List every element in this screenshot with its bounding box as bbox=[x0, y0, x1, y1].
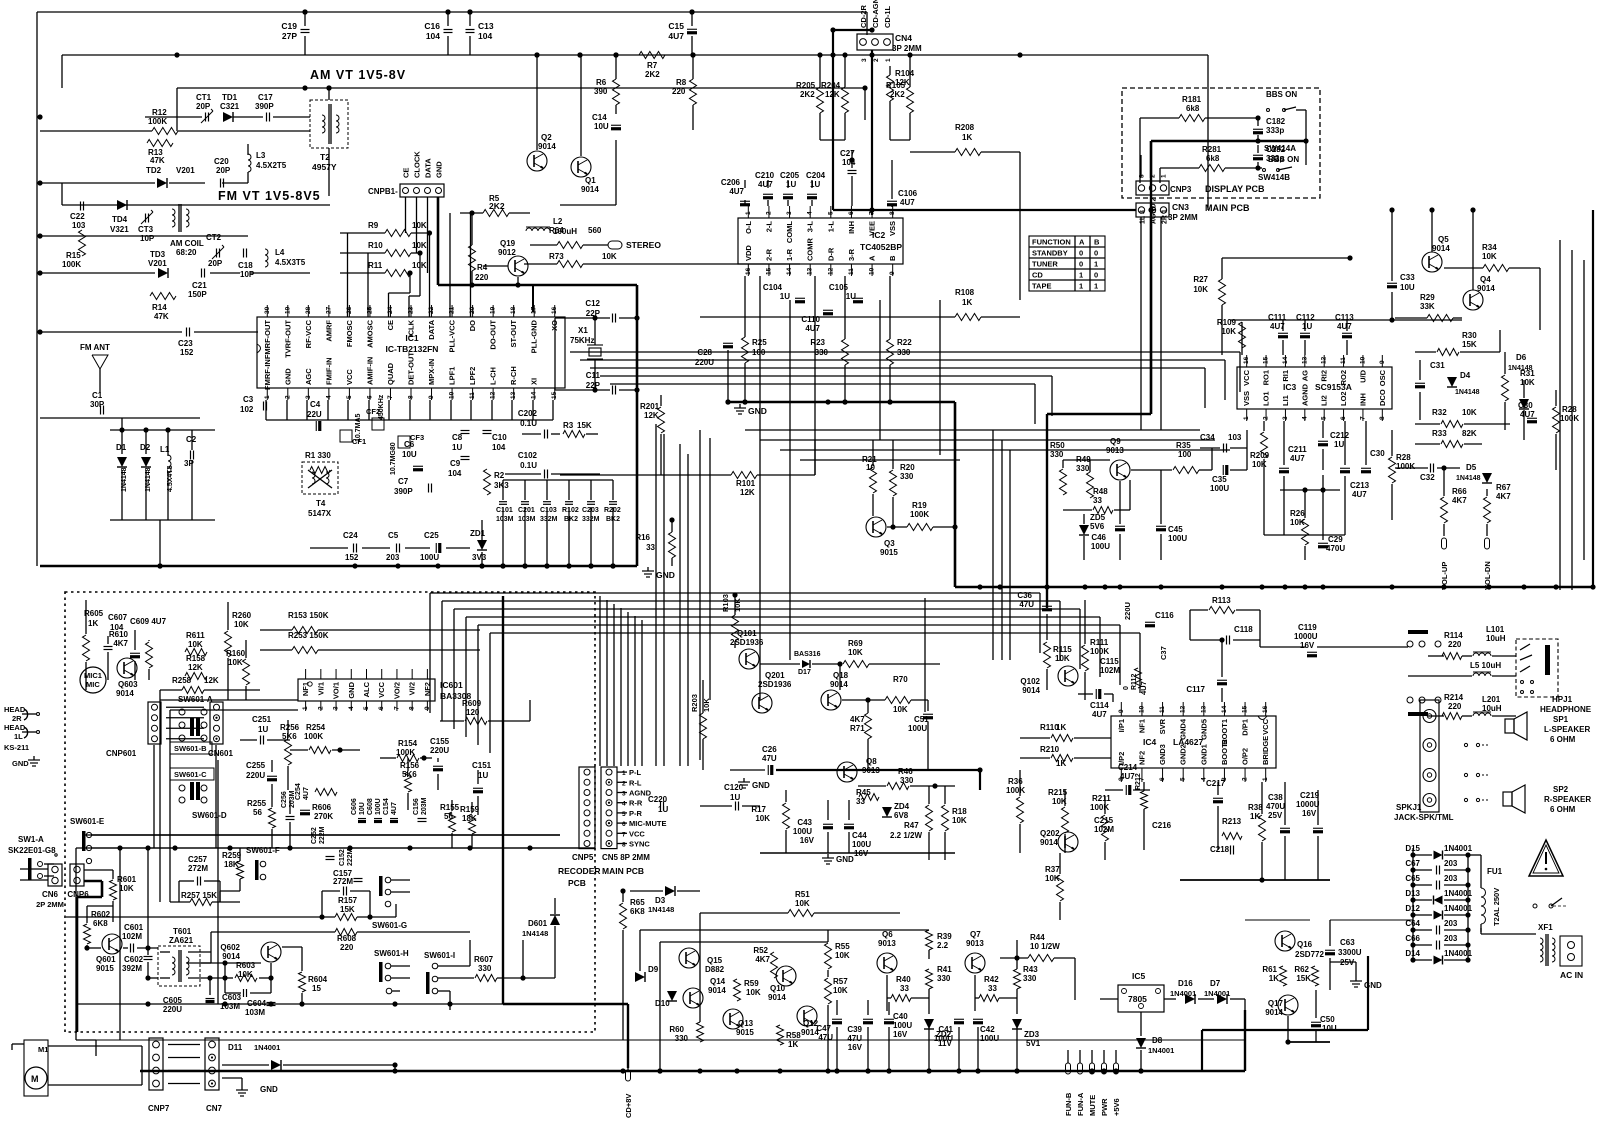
svg-text:R210: R210 bbox=[1040, 745, 1060, 754]
svg-text:10K: 10K bbox=[893, 705, 908, 714]
svg-text:10K: 10K bbox=[1045, 874, 1060, 883]
svg-text:C36: C36 bbox=[1017, 591, 1032, 600]
svg-text:3: 3 bbox=[333, 706, 340, 710]
svg-text:IC-TB2132FN: IC-TB2132FN bbox=[386, 344, 439, 354]
svg-text:C605: C605 bbox=[163, 996, 183, 1005]
svg-text:C12: C12 bbox=[585, 299, 600, 308]
svg-text:5: 5 bbox=[1321, 416, 1328, 420]
svg-text:CE: CE bbox=[386, 320, 395, 330]
svg-text:103: 103 bbox=[1228, 433, 1242, 442]
svg-text:R15: R15 bbox=[66, 251, 81, 260]
svg-text:450KHz: 450KHz bbox=[378, 394, 385, 420]
svg-text:9: 9 bbox=[1118, 709, 1125, 713]
svg-text:TD1: TD1 bbox=[222, 93, 238, 102]
svg-text:NF2: NF2 bbox=[1137, 751, 1146, 765]
svg-text:SPKJ1: SPKJ1 bbox=[1396, 803, 1422, 812]
svg-text:0: 0 bbox=[1094, 249, 1098, 258]
svg-text:1K: 1K bbox=[788, 1040, 798, 1049]
svg-text:12: 12 bbox=[827, 267, 834, 275]
svg-text:4U7: 4U7 bbox=[1520, 410, 1535, 419]
svg-text:COML: COML bbox=[785, 221, 794, 243]
svg-text:Q4: Q4 bbox=[1480, 275, 1491, 284]
svg-text:220U: 220U bbox=[1123, 602, 1132, 620]
svg-text:1U: 1U bbox=[1334, 440, 1344, 449]
svg-text:1N4001: 1N4001 bbox=[1444, 889, 1473, 898]
svg-text:R214: R214 bbox=[1444, 693, 1464, 702]
svg-text:C7: C7 bbox=[398, 477, 409, 486]
svg-text:15: 15 bbox=[1263, 356, 1270, 364]
svg-text:DCO: DCO bbox=[1378, 389, 1387, 406]
svg-text:104: 104 bbox=[426, 31, 440, 41]
svg-text:C34: C34 bbox=[1200, 433, 1215, 442]
svg-text:R64: R64 bbox=[549, 226, 564, 235]
svg-text:C116: C116 bbox=[1155, 611, 1174, 620]
svg-text:+5V6: +5V6 bbox=[1112, 1098, 1121, 1116]
svg-text:100U: 100U bbox=[980, 1034, 999, 1043]
svg-text:5V1: 5V1 bbox=[1026, 1039, 1041, 1048]
svg-text:BK2: BK2 bbox=[564, 516, 578, 523]
svg-text:3: 3 bbox=[305, 395, 312, 399]
svg-text:V321: V321 bbox=[110, 225, 129, 234]
svg-text:102M: 102M bbox=[1100, 666, 1120, 675]
svg-text:C156: C156 bbox=[413, 798, 420, 815]
svg-text:R34: R34 bbox=[1482, 243, 1497, 252]
svg-text:11: 11 bbox=[848, 268, 855, 275]
svg-text:15K: 15K bbox=[577, 421, 592, 430]
svg-text:10K: 10K bbox=[412, 241, 427, 250]
svg-text:1000U: 1000U bbox=[1294, 632, 1318, 641]
svg-text:8: 8 bbox=[408, 395, 415, 399]
svg-text:C254: C254 bbox=[295, 783, 302, 800]
svg-text:VI/1: VI/1 bbox=[316, 682, 325, 695]
svg-text:100U: 100U bbox=[1168, 534, 1187, 543]
svg-text:R607: R607 bbox=[474, 955, 494, 964]
svg-text:100K: 100K bbox=[148, 117, 167, 126]
svg-text:9: 9 bbox=[424, 706, 431, 710]
svg-text:33: 33 bbox=[988, 984, 997, 993]
svg-text:ZD4: ZD4 bbox=[894, 802, 910, 811]
svg-text:C44: C44 bbox=[852, 831, 867, 840]
svg-text:18K: 18K bbox=[224, 860, 239, 869]
svg-text:4U7: 4U7 bbox=[668, 31, 684, 41]
svg-text:10.7MG80: 10.7MG80 bbox=[390, 442, 397, 475]
svg-text:152: 152 bbox=[345, 553, 359, 562]
svg-text:Q13: Q13 bbox=[738, 1019, 754, 1028]
svg-text:GND: GND bbox=[656, 570, 675, 580]
svg-text:PLL-GND: PLL-GND bbox=[530, 319, 539, 353]
svg-text:R11: R11 bbox=[368, 261, 383, 270]
svg-text:23: 23 bbox=[408, 306, 415, 314]
svg-text:Q601: Q601 bbox=[96, 955, 116, 964]
svg-text:5: 5 bbox=[346, 395, 353, 399]
svg-text:R602: R602 bbox=[91, 910, 111, 919]
svg-text:5: 5 bbox=[827, 211, 834, 215]
svg-text:4K7: 4K7 bbox=[113, 639, 128, 648]
svg-text:R18: R18 bbox=[952, 807, 967, 816]
svg-text:R25: R25 bbox=[752, 338, 767, 347]
svg-text:2SD1936: 2SD1936 bbox=[730, 638, 764, 647]
svg-text:4.5X3T5: 4.5X3T5 bbox=[275, 258, 306, 267]
svg-text:10K: 10K bbox=[952, 816, 967, 825]
svg-text:16: 16 bbox=[745, 267, 752, 275]
svg-text:CNP7: CNP7 bbox=[148, 1104, 170, 1113]
svg-text:2R: 2R bbox=[12, 714, 22, 723]
svg-text:CD-AGND: CD-AGND bbox=[871, 0, 880, 28]
svg-text:C211: C211 bbox=[1288, 445, 1307, 454]
svg-text:C214: C214 bbox=[1118, 763, 1138, 772]
svg-text:VCC: VCC bbox=[345, 369, 354, 385]
svg-text:103M: 103M bbox=[245, 1008, 265, 1017]
svg-text:CE: CE bbox=[402, 168, 411, 178]
svg-text:9014: 9014 bbox=[1432, 244, 1450, 253]
svg-text:2K2: 2K2 bbox=[800, 90, 815, 99]
svg-text:4K7: 4K7 bbox=[850, 715, 865, 724]
svg-text:C155: C155 bbox=[430, 737, 450, 746]
svg-text:R20: R20 bbox=[900, 463, 915, 472]
svg-text:100K: 100K bbox=[304, 732, 323, 741]
svg-text:10 1/2W: 10 1/2W bbox=[1030, 942, 1060, 951]
svg-text:10K: 10K bbox=[835, 951, 850, 960]
svg-text:SW601-F: SW601-F bbox=[246, 846, 280, 855]
svg-text:22U: 22U bbox=[307, 410, 322, 419]
svg-text:L3: L3 bbox=[256, 151, 266, 160]
svg-text:C255: C255 bbox=[246, 761, 266, 770]
svg-text:R45: R45 bbox=[856, 788, 871, 797]
svg-text:9014: 9014 bbox=[581, 185, 599, 194]
svg-text:11: 11 bbox=[469, 392, 476, 399]
svg-text:R33: R33 bbox=[1432, 429, 1447, 438]
svg-text:L201: L201 bbox=[1482, 695, 1501, 704]
svg-text:Q602: Q602 bbox=[220, 943, 240, 952]
svg-text:1K: 1K bbox=[962, 298, 972, 307]
svg-text:330: 330 bbox=[900, 776, 914, 785]
svg-text:C66: C66 bbox=[1405, 934, 1420, 943]
svg-text:33: 33 bbox=[1093, 496, 1102, 505]
svg-text:C4: C4 bbox=[310, 400, 321, 409]
svg-text:Q201: Q201 bbox=[765, 671, 785, 680]
svg-text:470U: 470U bbox=[1266, 802, 1285, 811]
svg-text:16: 16 bbox=[1243, 356, 1250, 364]
svg-text:CT1: CT1 bbox=[196, 93, 212, 102]
svg-text:ZD3: ZD3 bbox=[1024, 1030, 1040, 1039]
svg-text:5147X: 5147X bbox=[308, 509, 332, 518]
svg-text:C604: C604 bbox=[247, 999, 267, 1008]
svg-text:C22: C22 bbox=[70, 212, 85, 221]
svg-text:100K: 100K bbox=[910, 510, 929, 519]
svg-text:Q5: Q5 bbox=[1438, 235, 1449, 244]
svg-text:R70: R70 bbox=[893, 675, 908, 684]
svg-text:20P: 20P bbox=[216, 166, 231, 175]
svg-text:14: 14 bbox=[1221, 705, 1228, 713]
svg-text:3: 3 bbox=[861, 58, 868, 62]
svg-text:2.2 1/2W: 2.2 1/2W bbox=[890, 831, 922, 840]
svg-text:12: 12 bbox=[1180, 705, 1187, 713]
svg-text:C28: C28 bbox=[697, 348, 712, 357]
svg-text:R52: R52 bbox=[753, 946, 768, 955]
svg-text:203: 203 bbox=[1444, 874, 1458, 883]
svg-text:TD2: TD2 bbox=[146, 166, 162, 175]
svg-text:16: 16 bbox=[1262, 705, 1269, 713]
svg-text:103: 103 bbox=[72, 221, 86, 230]
svg-text:330: 330 bbox=[900, 472, 914, 481]
svg-text:CT2: CT2 bbox=[206, 233, 222, 242]
svg-text:XO: XO bbox=[550, 320, 559, 331]
svg-text:9014: 9014 bbox=[222, 952, 240, 961]
svg-text:AMIF-IN: AMIF-IN bbox=[365, 357, 374, 385]
svg-text:ZD5: ZD5 bbox=[1090, 513, 1106, 522]
svg-text:19: 19 bbox=[284, 306, 291, 314]
svg-text:R23: R23 bbox=[810, 338, 825, 347]
svg-text:R17: R17 bbox=[751, 805, 766, 814]
svg-text:10K: 10K bbox=[746, 988, 761, 997]
svg-text:LI2: LI2 bbox=[1320, 395, 1329, 406]
svg-text:C23: C23 bbox=[178, 339, 193, 348]
svg-text:4U7: 4U7 bbox=[391, 802, 398, 815]
svg-text:C602: C602 bbox=[124, 955, 144, 964]
svg-text:GND: GND bbox=[435, 161, 444, 178]
svg-text:R16: R16 bbox=[635, 533, 650, 542]
svg-text:75KHz: 75KHz bbox=[570, 336, 594, 345]
svg-text:26: 26 bbox=[346, 306, 353, 314]
svg-text:Q102: Q102 bbox=[1020, 677, 1040, 686]
svg-text:C38: C38 bbox=[1268, 793, 1283, 802]
svg-text:R104: R104 bbox=[895, 69, 915, 78]
svg-text:M1: M1 bbox=[38, 1045, 48, 1054]
svg-text:Q10: Q10 bbox=[770, 984, 786, 993]
svg-text:100U: 100U bbox=[1210, 484, 1229, 493]
svg-text:1-R: 1-R bbox=[785, 248, 794, 261]
svg-text:D10: D10 bbox=[655, 999, 670, 1008]
svg-text:390: 390 bbox=[594, 87, 608, 96]
svg-text:1N4001: 1N4001 bbox=[1444, 949, 1473, 958]
svg-text:13: 13 bbox=[1301, 356, 1308, 364]
svg-text:R159: R159 bbox=[460, 805, 480, 814]
svg-text:C111: C111 bbox=[1268, 313, 1287, 322]
svg-text:C321: C321 bbox=[220, 102, 240, 111]
svg-text:CN601: CN601 bbox=[208, 749, 233, 758]
svg-text:R109: R109 bbox=[1217, 318, 1237, 327]
svg-text:16: 16 bbox=[551, 306, 558, 314]
svg-text:1: 1 bbox=[302, 706, 309, 710]
svg-text:U/D: U/D bbox=[1358, 369, 1367, 383]
svg-text:28: 28 bbox=[305, 306, 312, 314]
svg-text:C16: C16 bbox=[424, 21, 440, 31]
svg-text:9014: 9014 bbox=[1022, 686, 1040, 695]
svg-text:27P: 27P bbox=[282, 31, 297, 41]
svg-text:2SD772: 2SD772 bbox=[1295, 950, 1324, 959]
svg-text:R606: R606 bbox=[312, 803, 332, 812]
svg-text:R40: R40 bbox=[896, 975, 911, 984]
svg-text:L2: L2 bbox=[553, 217, 563, 226]
svg-text:390P: 390P bbox=[394, 487, 413, 496]
svg-text:R101: R101 bbox=[736, 479, 756, 488]
svg-text:FMIF-IN: FMIF-IN bbox=[324, 358, 333, 386]
svg-text:C608: C608 bbox=[367, 798, 374, 815]
svg-text:AGND: AGND bbox=[1300, 383, 1309, 406]
svg-text:D882: D882 bbox=[705, 965, 725, 974]
svg-text:2: 2 bbox=[317, 706, 324, 710]
svg-text:Q202: Q202 bbox=[1040, 829, 1060, 838]
svg-text:10K: 10K bbox=[1252, 460, 1267, 469]
svg-text:15K: 15K bbox=[1296, 974, 1311, 983]
svg-text:R51: R51 bbox=[795, 890, 810, 899]
svg-text:100U: 100U bbox=[793, 827, 812, 836]
svg-text:203M: 203M bbox=[421, 797, 428, 815]
svg-text:CN3: CN3 bbox=[1172, 202, 1189, 212]
svg-text:330: 330 bbox=[937, 974, 951, 983]
svg-text:R-L: R-L bbox=[629, 778, 642, 787]
svg-text:12K: 12K bbox=[204, 676, 219, 685]
svg-text:102: 102 bbox=[240, 405, 254, 414]
svg-text:10U: 10U bbox=[1322, 1024, 1337, 1033]
svg-text:VCC: VCC bbox=[1261, 718, 1270, 734]
svg-text:R43: R43 bbox=[1023, 965, 1038, 974]
svg-text:R39: R39 bbox=[937, 932, 952, 941]
svg-text:220U: 220U bbox=[246, 771, 265, 780]
svg-text:2-L: 2-L bbox=[764, 221, 773, 233]
svg-text:DISPLAY PCB: DISPLAY PCB bbox=[1205, 184, 1265, 194]
svg-text:10K: 10K bbox=[1221, 327, 1236, 336]
svg-text:2: 2 bbox=[1242, 777, 1249, 781]
svg-text:C18: C18 bbox=[238, 261, 253, 270]
svg-text:C151: C151 bbox=[472, 761, 492, 770]
svg-text:10U: 10U bbox=[359, 802, 366, 815]
svg-text:C15: C15 bbox=[668, 21, 684, 31]
svg-text:C215: C215 bbox=[1094, 816, 1114, 825]
svg-text:10: 10 bbox=[449, 391, 456, 399]
svg-text:10uH: 10uH bbox=[1486, 634, 1506, 643]
svg-text:10K: 10K bbox=[1462, 408, 1477, 417]
svg-text:CN4: CN4 bbox=[895, 33, 912, 43]
svg-text:GND3: GND3 bbox=[1158, 744, 1167, 765]
svg-text:TVRF-OUT: TVRF-OUT bbox=[283, 320, 292, 358]
svg-text:GND: GND bbox=[1364, 981, 1382, 990]
svg-text:1U: 1U bbox=[730, 793, 740, 802]
svg-text:4U7: 4U7 bbox=[1120, 772, 1135, 781]
svg-text:1: 1 bbox=[1094, 260, 1098, 269]
svg-text:9013: 9013 bbox=[878, 939, 896, 948]
svg-text:9013: 9013 bbox=[862, 766, 880, 775]
svg-text:CD-2R: CD-2R bbox=[859, 4, 868, 28]
svg-text:Q603: Q603 bbox=[118, 680, 138, 689]
svg-text:1U: 1U bbox=[478, 771, 488, 780]
svg-text:33K: 33K bbox=[1420, 302, 1435, 311]
svg-text:10K: 10K bbox=[1055, 654, 1070, 663]
svg-text:CNP601: CNP601 bbox=[106, 749, 137, 758]
svg-text:CD: CD bbox=[1032, 271, 1043, 280]
svg-text:20P: 20P bbox=[196, 102, 211, 111]
svg-text:1: 1 bbox=[885, 58, 892, 62]
svg-text:CT3: CT3 bbox=[138, 225, 154, 234]
svg-text:SW601-E: SW601-E bbox=[70, 817, 105, 826]
svg-text:D15: D15 bbox=[1405, 844, 1420, 853]
svg-text:RECODER: RECODER bbox=[558, 866, 601, 876]
svg-text:R113: R113 bbox=[1212, 596, 1231, 605]
svg-text:FU1: FU1 bbox=[1487, 867, 1503, 876]
svg-text:GND: GND bbox=[752, 781, 770, 790]
svg-text:BBS ON: BBS ON bbox=[1268, 155, 1299, 164]
svg-text:100: 100 bbox=[752, 348, 766, 357]
svg-text:10K: 10K bbox=[833, 986, 848, 995]
svg-text:104: 104 bbox=[448, 469, 462, 478]
svg-text:C101: C101 bbox=[496, 507, 513, 514]
svg-text:47U: 47U bbox=[818, 1033, 833, 1042]
svg-text:CN5 8P 2MM: CN5 8P 2MM bbox=[602, 853, 650, 862]
svg-text:C8: C8 bbox=[452, 433, 463, 442]
svg-text:4U7: 4U7 bbox=[900, 198, 915, 207]
svg-text:R66: R66 bbox=[1452, 487, 1467, 496]
svg-text:R255: R255 bbox=[247, 799, 267, 808]
svg-text:R50: R50 bbox=[1050, 441, 1065, 450]
svg-text:Q9: Q9 bbox=[1110, 437, 1121, 446]
svg-text:C106: C106 bbox=[898, 189, 918, 198]
svg-text:102M: 102M bbox=[122, 932, 142, 941]
svg-text:IC601: IC601 bbox=[440, 680, 463, 690]
svg-text:D17: D17 bbox=[798, 669, 811, 676]
svg-text:19: 19 bbox=[490, 306, 497, 314]
svg-text:I/P1: I/P1 bbox=[1117, 719, 1126, 732]
svg-text:C5: C5 bbox=[388, 531, 399, 540]
svg-text:R260: R260 bbox=[232, 611, 252, 620]
svg-text:68:20: 68:20 bbox=[176, 248, 197, 257]
svg-text:R42: R42 bbox=[984, 975, 999, 984]
svg-text:R14: R14 bbox=[152, 303, 167, 312]
svg-text:O/P2: O/P2 bbox=[1241, 748, 1250, 765]
svg-text:100K: 100K bbox=[1006, 786, 1025, 795]
svg-text:CD+8V: CD+8V bbox=[624, 1094, 633, 1118]
svg-text:220: 220 bbox=[672, 87, 686, 96]
svg-text:10K: 10K bbox=[234, 620, 249, 629]
svg-text:9: 9 bbox=[428, 395, 435, 399]
svg-text:T4: T4 bbox=[316, 499, 326, 508]
svg-text:C13: C13 bbox=[478, 21, 494, 31]
svg-text:V201: V201 bbox=[148, 259, 167, 268]
svg-text:D6: D6 bbox=[1516, 353, 1527, 362]
svg-text:D13: D13 bbox=[1405, 889, 1420, 898]
svg-text:Q2: Q2 bbox=[541, 133, 552, 142]
svg-text:R32: R32 bbox=[1432, 408, 1447, 417]
svg-text:IC3: IC3 bbox=[1283, 382, 1297, 392]
svg-text:D16: D16 bbox=[1178, 979, 1193, 988]
svg-text:CLOCK: CLOCK bbox=[413, 151, 422, 178]
svg-text:VCC: VCC bbox=[377, 681, 386, 697]
svg-text:3P 2MM: 3P 2MM bbox=[1168, 213, 1198, 222]
svg-text:1K: 1K bbox=[88, 619, 98, 628]
svg-text:SW601-G: SW601-G bbox=[372, 921, 407, 930]
svg-text:B: B bbox=[1094, 238, 1100, 247]
svg-text:1N4001: 1N4001 bbox=[254, 1043, 280, 1052]
svg-text:470U: 470U bbox=[1326, 544, 1345, 553]
svg-text:0: 0 bbox=[1079, 249, 1083, 258]
svg-text:16V: 16V bbox=[893, 1030, 908, 1039]
svg-text:9015: 9015 bbox=[96, 964, 114, 973]
svg-text:R59: R59 bbox=[744, 979, 759, 988]
svg-text:82K: 82K bbox=[1462, 429, 1477, 438]
svg-text:5: 5 bbox=[1180, 777, 1187, 781]
svg-text:Q3: Q3 bbox=[884, 539, 895, 548]
svg-text:10K: 10K bbox=[188, 640, 203, 649]
svg-text:D12: D12 bbox=[1405, 904, 1420, 913]
svg-text:C63: C63 bbox=[1340, 938, 1355, 947]
svg-text:T601: T601 bbox=[173, 927, 192, 936]
svg-text:R108: R108 bbox=[955, 288, 975, 297]
svg-text:1N4148: 1N4148 bbox=[1456, 475, 1481, 482]
svg-text:C154: C154 bbox=[383, 798, 390, 815]
svg-text:R205: R205 bbox=[796, 81, 816, 90]
svg-text:10: 10 bbox=[1359, 356, 1366, 364]
svg-text:21: 21 bbox=[449, 306, 456, 314]
svg-text:R610: R610 bbox=[109, 630, 129, 639]
